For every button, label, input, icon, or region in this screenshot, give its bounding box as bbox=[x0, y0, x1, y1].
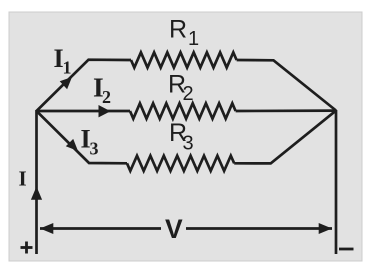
label R2 bbox=[168, 71, 194, 106]
svg-text:I: I bbox=[19, 167, 27, 191]
arrowhead V left bbox=[40, 223, 53, 234]
wire V dimension line left segment bbox=[40, 227, 161, 230]
resistor R1 bbox=[131, 52, 237, 67]
svg-text:2: 2 bbox=[183, 83, 194, 105]
label I2 bbox=[93, 72, 111, 108]
wire bottom branch left diagonal and lead to R3 bbox=[37, 111, 128, 163]
label R3 bbox=[169, 119, 194, 155]
wire top branch left diagonal and lead to R1 bbox=[37, 60, 132, 111]
resistor R2 bbox=[130, 103, 236, 118]
arrowhead I (up on left vertical) bbox=[31, 187, 42, 200]
arrowhead I1 (up-right on top diagonal) bbox=[60, 77, 72, 89]
wire bottom branch right lead and diagonal to node B bbox=[234, 111, 336, 164]
svg-text:1: 1 bbox=[63, 58, 72, 78]
arrowhead I2 (right on middle wire) bbox=[99, 105, 111, 117]
plus terminal bbox=[21, 242, 33, 254]
label V bbox=[165, 214, 183, 244]
svg-text:1: 1 bbox=[188, 28, 199, 50]
resistor R3 bbox=[127, 156, 234, 171]
minus terminal bbox=[339, 248, 354, 251]
label I (main current) bbox=[19, 167, 27, 191]
arrowhead I3 (down-right on bottom diagonal) bbox=[66, 139, 78, 151]
wire V dimension line right segment bbox=[186, 227, 332, 230]
wire right vertical (node B down) bbox=[335, 110, 338, 254]
wire middle branch right lead to node B bbox=[236, 109, 336, 112]
label I1 bbox=[54, 44, 72, 78]
svg-text:2: 2 bbox=[102, 87, 111, 107]
wire middle branch left lead bbox=[37, 110, 131, 113]
wire top branch right lead and diagonal to node B bbox=[237, 60, 336, 111]
label R1 bbox=[169, 16, 199, 51]
svg-text:R: R bbox=[169, 16, 187, 44]
arrowhead V right bbox=[319, 223, 332, 234]
svg-text:3: 3 bbox=[183, 133, 194, 155]
wire left vertical (node A down) bbox=[35, 110, 38, 254]
svg-text:V: V bbox=[165, 214, 183, 244]
svg-text:3: 3 bbox=[90, 139, 99, 159]
label I3 bbox=[81, 125, 99, 159]
